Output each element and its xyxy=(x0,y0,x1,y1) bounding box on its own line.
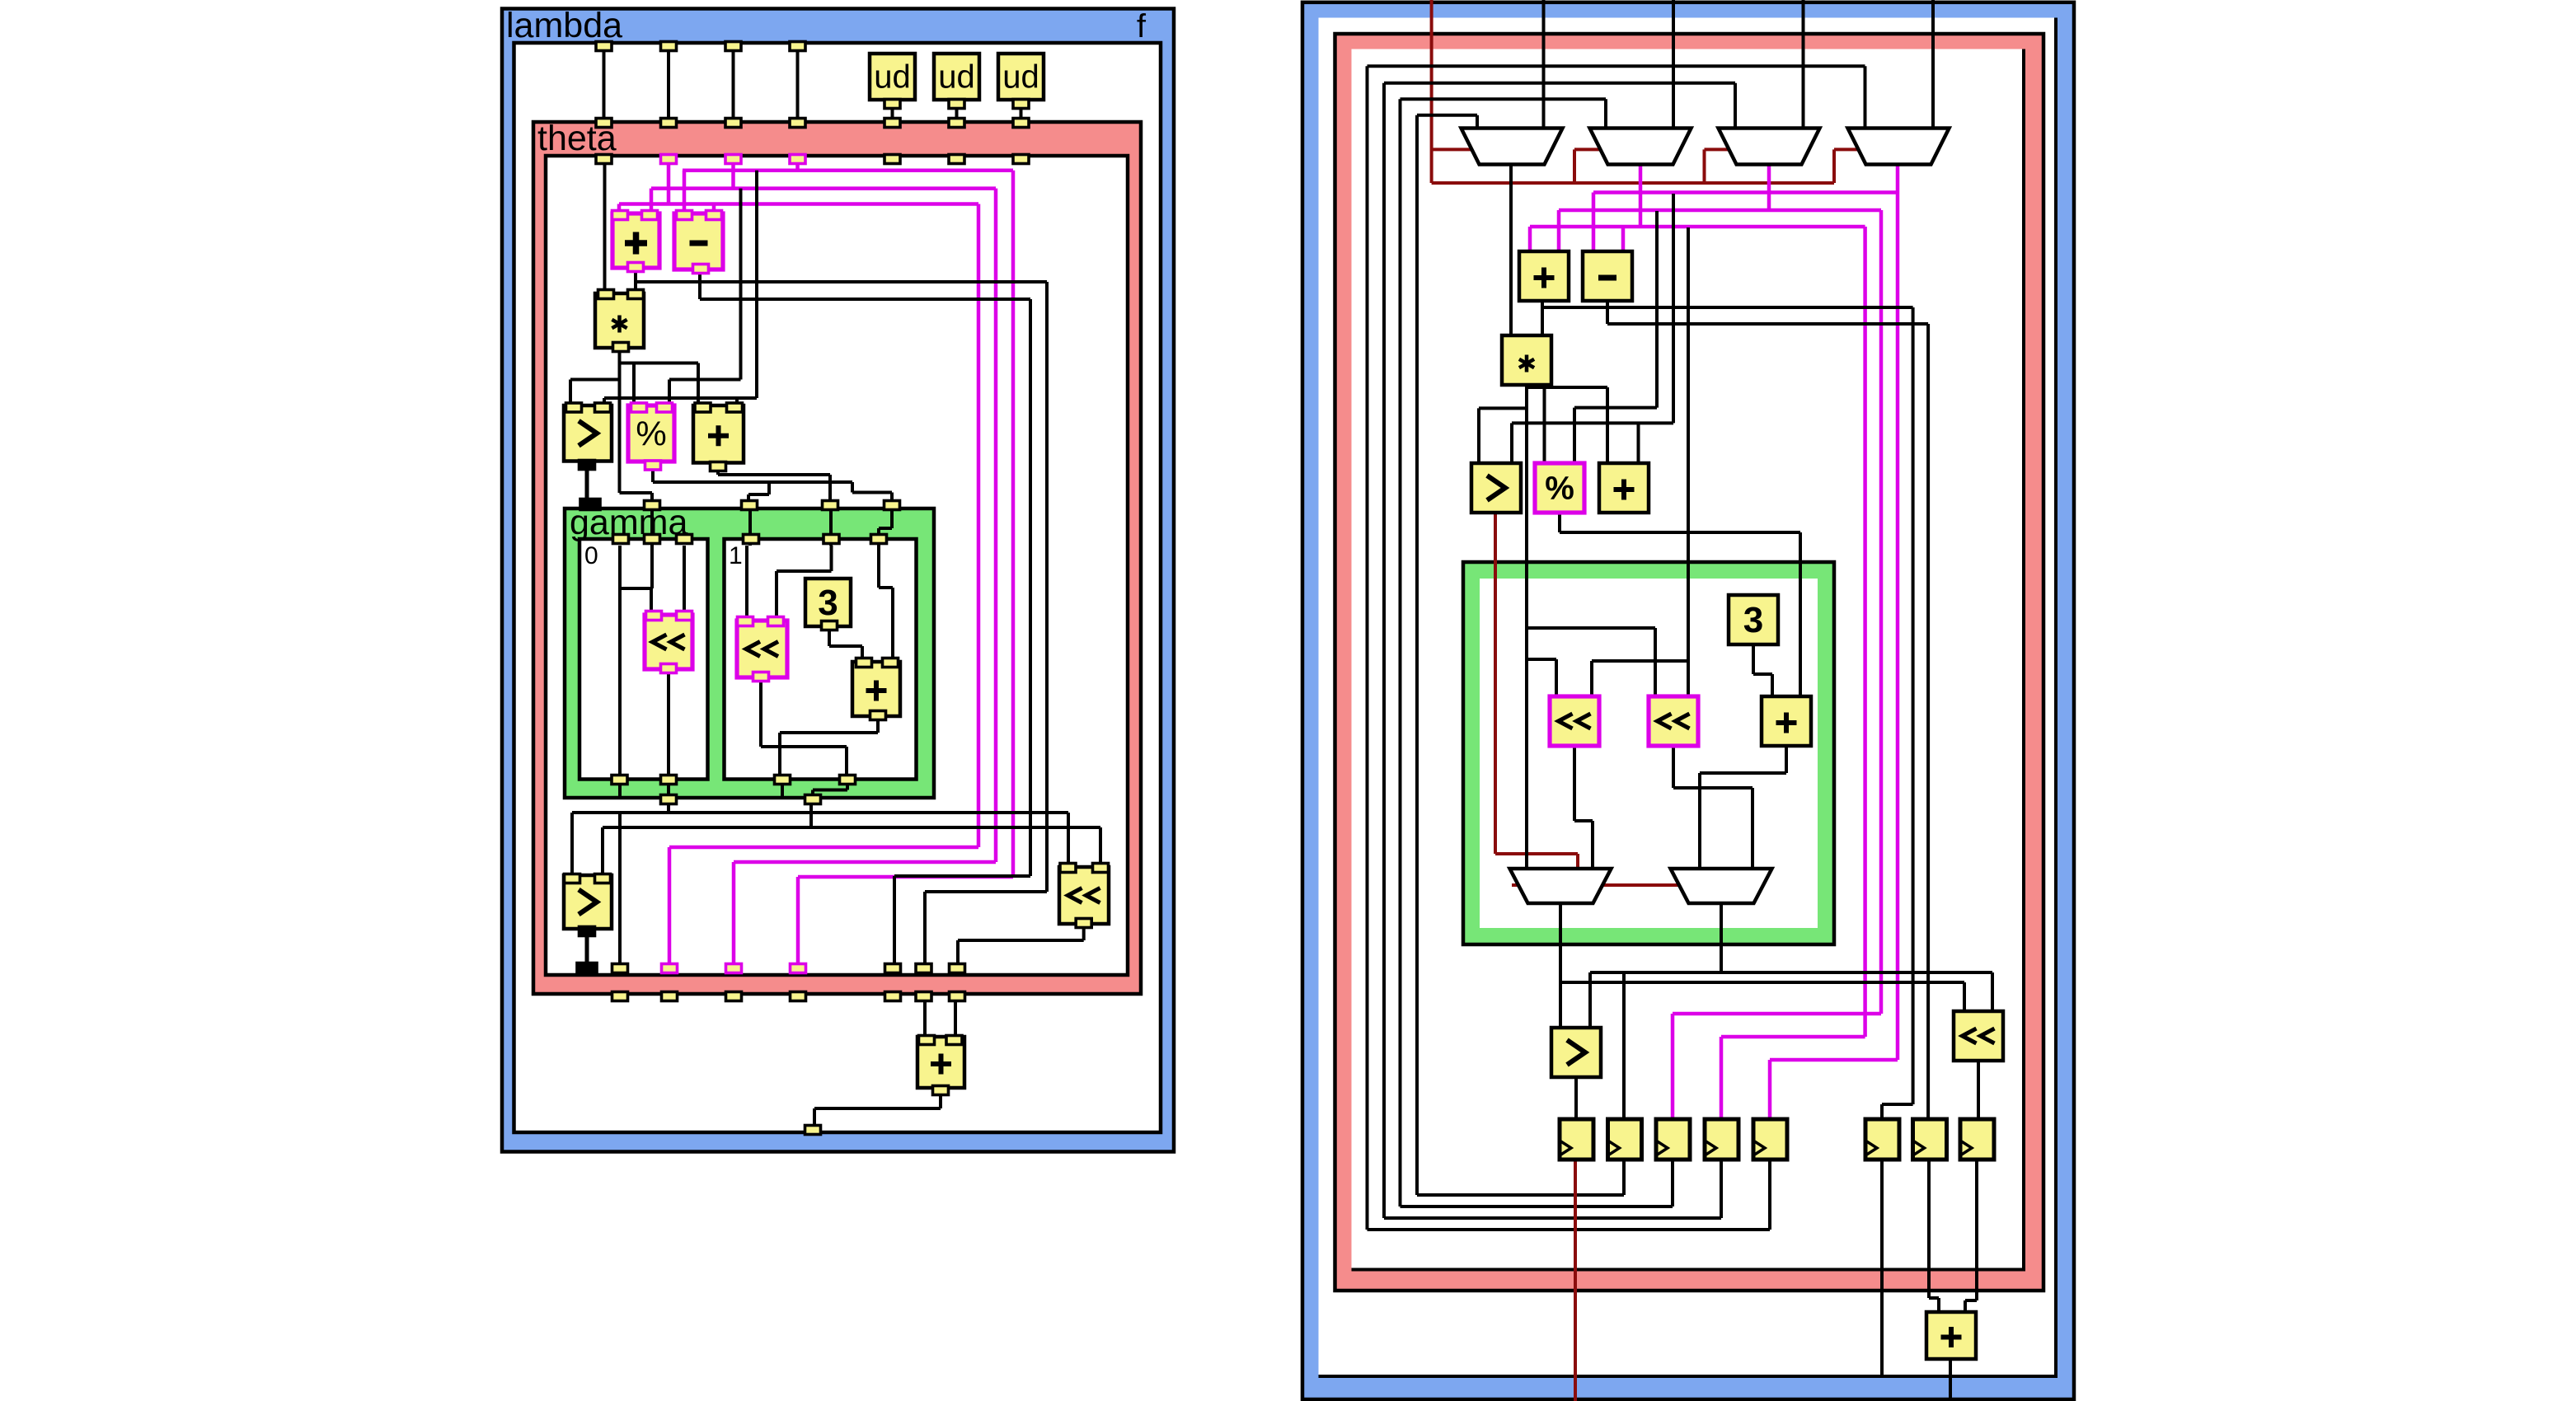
shl3 (<<) xyxy=(1059,867,1109,924)
port adder1 left in xyxy=(612,211,628,220)
adder8 (+) xyxy=(1926,1312,1976,1359)
wire gamma branch1 shl inputs xyxy=(747,546,832,619)
wire modulo output net xyxy=(653,468,892,504)
shl1 (<<) xyxy=(645,615,692,669)
constant ud 1 xyxy=(870,54,915,100)
port theta next var5 xyxy=(885,964,901,973)
wire subtractor output net xyxy=(700,271,1030,966)
wire lambda arg 4 to theta xyxy=(796,49,800,120)
wire gamma input4 to branch1 xyxy=(879,504,892,546)
wire shl5 output to right mux xyxy=(1673,744,1753,870)
wire branch1 var to adder3 right xyxy=(879,546,893,660)
port shl2 left in xyxy=(738,617,753,626)
wire mux3 drop to modulo2 right xyxy=(1574,211,1657,462)
svg-text:3: 3 xyxy=(818,583,838,623)
modulo (%) xyxy=(628,405,674,462)
register reg8 xyxy=(1960,1119,1994,1160)
gamma branch 1 box xyxy=(725,539,917,780)
wire right mux output net xyxy=(1590,902,1992,1121)
gamma branch 0 box xyxy=(579,539,708,780)
port multiplier left in xyxy=(598,290,614,299)
register reg7 xyxy=(1913,1119,1947,1160)
port gt1 left in xyxy=(566,403,582,412)
port theta input 2 xyxy=(661,119,677,128)
port modulo out xyxy=(645,461,661,470)
mux1 (top) xyxy=(1462,129,1563,165)
port multiplier out xyxy=(613,343,629,352)
port ud1 output xyxy=(884,100,900,109)
port subtractor out xyxy=(693,265,709,274)
adder2 (+) xyxy=(693,405,744,463)
svg-text:3: 3 xyxy=(1743,600,1763,640)
svg-text:f: f xyxy=(1137,8,1147,45)
green conditional frame (right panel) xyxy=(1463,562,1834,944)
wire mux2 output state net (magenta) xyxy=(1530,165,1865,1121)
wire loopback reg4 to mux3 xyxy=(1384,83,1735,1218)
wire external input 1 to mux1 xyxy=(1542,0,1546,130)
port shl3 right in xyxy=(1093,864,1109,873)
svg-text:0: 0 xyxy=(584,542,598,569)
port gamma input2 xyxy=(742,501,758,510)
port lambda arg 4 xyxy=(790,42,805,51)
wire theta state var i (magenta) xyxy=(619,162,978,966)
port adder1 out xyxy=(628,263,644,272)
port gt1 out (predicate) xyxy=(579,461,595,470)
wire external input 3 to mux3 xyxy=(1802,0,1805,130)
port theta input 6 xyxy=(949,119,964,128)
constant ud 3 xyxy=(998,54,1044,100)
wire shl2 output to branch1 out xyxy=(761,674,847,775)
gt4 (>) xyxy=(1551,1028,1601,1077)
port branch0 in1 xyxy=(613,535,629,544)
port theta next var4 xyxy=(791,964,806,973)
red frame (right panel) xyxy=(1335,34,2044,1291)
wire theta state var a (magenta) xyxy=(651,162,996,966)
wire const3 to adder3 left xyxy=(829,623,862,660)
port theta result5 xyxy=(885,992,901,1001)
port subtractor right in xyxy=(706,211,722,220)
wire lambda arg 2 to theta xyxy=(667,49,670,120)
port theta input 5 xyxy=(884,119,900,128)
port lambda arg 3 xyxy=(725,42,741,51)
register reg2 xyxy=(1608,1119,1642,1160)
svg-text:ud: ud xyxy=(1002,59,1039,96)
svg-text:ud: ud xyxy=(874,59,911,96)
red frame inner outline bottom-right xyxy=(1352,49,2025,1270)
wire gamma output1 net xyxy=(603,802,1100,875)
shl4 (<<) xyxy=(1550,696,1599,746)
register reg4 xyxy=(1705,1119,1738,1160)
port theta result6 xyxy=(916,992,931,1001)
port modulo right in xyxy=(657,403,673,412)
wire mux3 output state net (magenta) xyxy=(1559,165,1881,1121)
port theta var5 xyxy=(884,155,900,164)
wire predicate net (dark red) xyxy=(1432,0,1861,183)
wire gamma input1 to branch0 xyxy=(650,506,654,546)
subtractor (-) xyxy=(674,213,723,269)
modulo2 (%) xyxy=(1535,463,1584,513)
constant ud 2 xyxy=(934,54,979,100)
adder6 (+) xyxy=(1599,463,1649,513)
wire shl4 output to left mux xyxy=(1574,744,1593,870)
wire branch1 outputs to gamma edge xyxy=(782,780,847,796)
wire gt1 predicate to gamma xyxy=(585,468,589,503)
port adder3 left in xyxy=(856,658,872,668)
port adder4 right in xyxy=(946,1036,962,1045)
gt3 (>) xyxy=(1471,463,1521,513)
adder1 (+) xyxy=(612,213,659,268)
wire loopback reg2 to mux1 xyxy=(1417,115,1624,1195)
wire adder5 output net xyxy=(1542,299,1913,1121)
wire modulo2 output net xyxy=(1560,509,1800,699)
register reg3 xyxy=(1656,1119,1690,1160)
port gamma out1 xyxy=(661,795,677,804)
port gamma out2 xyxy=(805,795,821,804)
wire reg8 output to adder8 xyxy=(1965,1160,1977,1312)
port shl1 left in xyxy=(646,611,662,621)
wire ud 2 to theta xyxy=(955,105,959,121)
port shl3 left in xyxy=(1060,864,1076,873)
gt2 (>) xyxy=(564,875,612,929)
wire gt2 predicate to theta edge xyxy=(585,933,589,966)
shl6 (<<) xyxy=(1954,1011,2003,1061)
wire left mux output net xyxy=(1560,902,1964,1031)
port modulo left in xyxy=(631,403,647,412)
wire external input 4 to mux4 xyxy=(1931,0,1935,130)
shl5 (<<) xyxy=(1649,696,1698,746)
port branch0 in3 xyxy=(677,535,692,544)
port shl2 out xyxy=(753,672,769,682)
port shl1 right in xyxy=(677,611,692,621)
port theta var6 xyxy=(949,155,964,164)
register reg5 xyxy=(1753,1119,1787,1160)
port adder2 out xyxy=(711,462,726,471)
const 3b xyxy=(1729,595,1778,644)
mux5 (left, in green) xyxy=(1510,869,1612,903)
wire adder7 output to right mux xyxy=(1700,744,1786,870)
mux3 (top) xyxy=(1719,129,1820,165)
register reg1 xyxy=(1560,1119,1593,1160)
mux6 (right, in green) xyxy=(1671,869,1772,903)
blue frame inner outline bottom-right xyxy=(1319,18,2057,1377)
port gamma input4 xyxy=(884,501,900,510)
svg-text:%: % xyxy=(636,414,666,452)
port adder4 left in xyxy=(919,1036,935,1045)
wire multiplier2 output net xyxy=(1479,382,1655,870)
port subtractor left in xyxy=(677,211,692,220)
port theta var2 (magenta) xyxy=(661,155,677,164)
port adder3 out xyxy=(870,711,886,720)
wire loopback reg5 to mux4 xyxy=(1368,66,1865,1230)
port lambda arg 1 xyxy=(596,42,612,51)
wire adder3 output to branch1 out xyxy=(780,712,878,775)
wire reg6 output xyxy=(1880,1160,1884,1375)
multiplier (*) xyxy=(595,293,644,348)
wire mux2 drop to shl4 shl5 xyxy=(1592,227,1688,699)
port theta result4 xyxy=(791,992,806,1001)
port gamma input3 xyxy=(823,501,838,510)
wire shl6 output to reg8 xyxy=(1977,1057,1980,1121)
port theta input 7 xyxy=(1013,119,1029,128)
port gamma predicate xyxy=(580,499,600,510)
port theta var1 xyxy=(596,155,612,164)
port ud2 output xyxy=(949,100,964,109)
wire reg7 output to adder8 xyxy=(1929,1160,1939,1312)
port lambda result xyxy=(805,1126,821,1135)
port gt1 right in xyxy=(595,403,611,412)
wire mux4 drop to gt3 and adder6 xyxy=(1512,194,1673,462)
port theta var4 (magenta) xyxy=(790,155,805,164)
gt1 (>) xyxy=(564,405,612,462)
wire gamma input2 to branch1 xyxy=(748,504,752,546)
port branch1 in1 xyxy=(744,535,759,544)
port theta input 3 xyxy=(725,119,741,128)
svg-text:1: 1 xyxy=(729,542,743,569)
port adder4 out xyxy=(933,1086,949,1095)
wire gamma branch0 inputs xyxy=(620,546,684,778)
port ud3 output xyxy=(1013,100,1029,109)
port theta next var7 xyxy=(950,964,965,973)
wire ud 1 to theta xyxy=(891,105,894,121)
wire loopback reg3 to mux2 xyxy=(1401,99,1673,1207)
wire external input 2 to mux2 xyxy=(1672,0,1675,130)
port theta result7 xyxy=(950,992,965,1001)
port branch0 in2 xyxy=(645,535,660,544)
port theta input 1 xyxy=(596,119,612,128)
port lambda arg 2 xyxy=(661,42,677,51)
port shl3 out xyxy=(1076,919,1091,928)
gamma conditional frame xyxy=(565,503,934,798)
port shl2 right in xyxy=(768,617,784,626)
port multiplier right in xyxy=(628,290,644,299)
multiplier2 (*) xyxy=(1502,335,1551,385)
port adder2 right in xyxy=(727,403,743,412)
wire gt3 output to reg1 xyxy=(1574,1074,1578,1121)
mux4 (top) xyxy=(1848,129,1950,165)
port const3 out xyxy=(822,621,838,630)
wire adder1 output net xyxy=(636,272,1047,966)
port theta next var3 xyxy=(726,964,742,973)
port theta next pred xyxy=(577,963,597,974)
wire const3b to adder7 xyxy=(1753,641,1772,699)
port branch1 out2 xyxy=(840,775,856,785)
wire mux1 output to multiplier xyxy=(1509,165,1513,338)
register reg6 xyxy=(1865,1119,1899,1160)
wire shl3 output net xyxy=(958,925,1084,966)
const 3 xyxy=(805,579,851,626)
wire adder2 output to gamma xyxy=(718,466,830,504)
lambda region frame (left panel) xyxy=(502,6,1174,1152)
port branch0 out1 xyxy=(612,775,627,785)
wire theta state var b (magenta) xyxy=(683,162,1013,966)
wire gamma input3 to branch1 xyxy=(829,504,833,546)
wire ud 3 to theta xyxy=(1020,105,1023,121)
wire var4 drop to gt and adder2 xyxy=(604,171,757,406)
port theta next var6 xyxy=(916,964,931,973)
wire var3 drop to modulo right input xyxy=(669,189,741,406)
wire gt3 predicate to green muxes (dark red) xyxy=(1495,511,1680,885)
wire multiplier output net xyxy=(570,350,698,506)
port theta var7 xyxy=(1013,155,1029,164)
wire shl1 output to branch0 out xyxy=(667,672,670,778)
svg-text:ud: ud xyxy=(938,59,975,96)
port gt2 out (predicate) xyxy=(579,927,595,936)
port theta result3 xyxy=(726,992,742,1001)
port gamma input1 xyxy=(645,501,660,510)
wire subtractor2 output net xyxy=(1607,299,1928,1121)
adder3 (+) xyxy=(852,662,900,716)
wire branch0 outputs to gamma edge xyxy=(620,780,669,798)
wire adder4 output to lambda result xyxy=(814,1092,941,1127)
port adder2 left in xyxy=(695,403,711,412)
wire adder8 result output xyxy=(1949,1356,1952,1401)
port theta next var2 xyxy=(662,964,678,973)
port branch1 in3 xyxy=(871,535,887,544)
svg-text:lambda: lambda xyxy=(506,6,622,45)
port theta result1 xyxy=(612,992,628,1001)
port theta var3 (magenta) xyxy=(725,155,741,164)
wires theta outputs to adder4 xyxy=(925,995,955,1038)
shl2 (<<) xyxy=(737,621,787,677)
blue frame (right panel) xyxy=(1302,2,2074,1399)
port shl1 out xyxy=(661,664,677,673)
wire reg1 predicate output (dark red) xyxy=(1574,1160,1577,1401)
port theta out1 xyxy=(612,964,628,973)
port adder1 right in xyxy=(642,211,658,220)
adder4 (+) xyxy=(917,1037,964,1088)
port theta result2 xyxy=(662,992,678,1001)
port branch1 out1 xyxy=(775,775,791,785)
wire lambda arg 3 to theta xyxy=(732,49,735,120)
port branch1 in2 xyxy=(823,535,839,544)
adder5 (+) xyxy=(1519,251,1569,301)
port adder3 right in xyxy=(883,658,899,668)
port branch0 out2 xyxy=(661,775,677,785)
theta loop frame xyxy=(533,119,1141,994)
mux2 (top) xyxy=(1590,129,1692,165)
port gt2 right in xyxy=(595,874,611,883)
port gt2 left in xyxy=(565,874,580,883)
wire lambda arg 1 to theta xyxy=(603,49,606,120)
wire var1 to multiplier left input xyxy=(603,162,607,297)
wire gamma output0 net xyxy=(572,802,1068,966)
svg-text:%: % xyxy=(1545,471,1574,507)
subtractor2 (-) xyxy=(1583,251,1632,301)
adder7 (+) xyxy=(1762,696,1811,746)
port theta input 4 xyxy=(790,119,805,128)
wire mux4 output state net (magenta) xyxy=(1593,165,1898,1121)
